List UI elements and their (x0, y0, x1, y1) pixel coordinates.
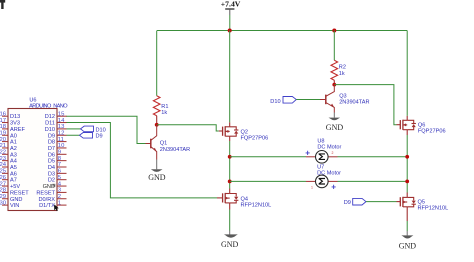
transistor Q4 RFP12N10L (217, 189, 238, 210)
svg-text:GND: GND (326, 123, 344, 132)
svg-text:A2: A2 (10, 146, 17, 152)
node left column / motor U8 (228, 155, 232, 159)
svg-text:25: 25 (0, 169, 7, 175)
svg-text:23: 23 (0, 156, 7, 162)
svg-text:D2: D2 (48, 178, 55, 184)
marker on GND pin (52, 184, 55, 187)
svg-text:D9: D9 (48, 133, 55, 139)
svg-text:D10: D10 (96, 127, 106, 133)
left pins of U6 (2, 116, 8, 205)
wire R2 junction to Q6 gate (334, 85, 396, 125)
resistor R1 (153, 96, 160, 125)
node right column / motor U7 (405, 180, 409, 184)
right pin numbers (58, 111, 65, 206)
svg-text:2: 2 (332, 151, 334, 155)
svg-text:RFP12N10L: RFP12N10L (241, 202, 272, 208)
svg-text:D9: D9 (96, 134, 103, 140)
svg-text:A6: A6 (10, 171, 17, 177)
component U6 ARDUINO_NANO (8, 98, 68, 211)
svg-text:16: 16 (0, 111, 7, 117)
svg-text:D11: D11 (45, 121, 55, 127)
svg-text:VIN: VIN (10, 203, 19, 209)
svg-text:D1/TX: D1/TX (39, 203, 55, 209)
svg-text:12: 12 (58, 130, 65, 136)
svg-text:FQP27P06: FQP27P06 (418, 129, 446, 135)
ground under Q1 (148, 160, 166, 183)
svg-text:DC Motor: DC Motor (317, 144, 341, 150)
node R1/Q1 collector junction (155, 123, 159, 127)
svg-text:RFP12N10L: RFP12N10L (418, 206, 449, 212)
svg-text:+7.4V: +7.4V (221, 0, 241, 8)
power +7.4V (221, 0, 241, 31)
svg-text:27: 27 (0, 181, 6, 187)
wire Q6 source down right column (406, 135, 408, 193)
svg-text:15: 15 (58, 111, 65, 117)
svg-text:AREF: AREF (10, 127, 26, 133)
svg-text:2: 2 (58, 194, 61, 200)
svg-text:A5: A5 (10, 165, 17, 171)
wire R1 junction to Q2 gate (157, 125, 219, 131)
svg-text:A4: A4 (10, 159, 17, 165)
svg-text:1k: 1k (339, 71, 345, 77)
transistor Q2 FQP27P06 (219, 122, 239, 141)
wire Q2 source down left column (229, 141, 231, 189)
svg-text:D3: D3 (48, 171, 55, 177)
svg-text:+: + (305, 149, 310, 158)
motor U7 DC Motor (230, 165, 408, 192)
svg-text:3V3: 3V3 (10, 121, 20, 127)
ground under Q3 (326, 113, 344, 133)
node rail/+7.4V junction (228, 29, 232, 33)
svg-text:Q1: Q1 (160, 141, 167, 147)
svg-text:+5V: +5V (10, 184, 20, 190)
svg-text:1: 1 (311, 186, 313, 190)
svg-text:D6: D6 (48, 152, 55, 158)
svg-text:18: 18 (0, 124, 7, 130)
right pin names (36, 114, 55, 209)
svg-text:9: 9 (58, 150, 61, 156)
node R2/Q3 collector junction (332, 83, 336, 87)
ground under Q5 (399, 221, 417, 250)
node right column / motor U8 (405, 155, 409, 159)
svg-text:R2: R2 (339, 65, 346, 71)
svg-text:28: 28 (0, 188, 7, 194)
resistor R2 (333, 31, 335, 61)
svg-text:A7: A7 (10, 178, 17, 184)
svg-text:FQP27P06: FQP27P06 (241, 135, 269, 141)
svg-text:A0: A0 (10, 133, 17, 139)
svg-text:19: 19 (0, 130, 6, 136)
left pin numbers (0, 111, 7, 206)
net label D10 (at U6) (67, 128, 81, 130)
transistor Q6 FQP27P06 (397, 116, 416, 135)
svg-text:7: 7 (58, 162, 61, 168)
svg-text:R1: R1 (161, 104, 168, 110)
svg-text:22: 22 (0, 150, 6, 156)
ground under Q4 (221, 210, 239, 249)
svg-text:13: 13 (58, 124, 65, 130)
svg-text:2N3904TAR: 2N3904TAR (160, 147, 190, 153)
svg-text:A3: A3 (10, 152, 17, 158)
svg-text:D10: D10 (270, 99, 280, 105)
svg-text:GND: GND (221, 240, 239, 249)
svg-text:D8: D8 (48, 140, 55, 146)
node rail/R2 junction (332, 29, 336, 33)
svg-text:D7: D7 (48, 146, 55, 152)
transistor Q5 RFP12N10L (397, 193, 416, 222)
wire rail to R1 (156, 31, 158, 96)
stray text glyph top-left (0, 0, 5, 9)
svg-text:+: + (331, 183, 336, 192)
svg-text:D0/RX: D0/RX (39, 197, 56, 203)
svg-text:D10: D10 (45, 127, 55, 133)
svg-text:29: 29 (0, 194, 6, 200)
left pin names (10, 114, 29, 209)
wire D11 pin to Q4 gate (66, 123, 217, 198)
svg-text:30: 30 (0, 200, 7, 206)
svg-text:A1: A1 (10, 140, 17, 146)
svg-text:2N3904TAR: 2N3904TAR (339, 100, 369, 106)
svg-text:RESET: RESET (36, 190, 55, 196)
svg-text:1k: 1k (161, 110, 167, 116)
svg-text:24: 24 (0, 162, 7, 168)
svg-text:D4: D4 (48, 165, 55, 171)
svg-text:11: 11 (58, 137, 64, 143)
svg-text:26: 26 (0, 175, 7, 181)
wire +7.4V column to Q2 drain (229, 31, 231, 123)
svg-text:D12: D12 (45, 114, 55, 120)
svg-text:GND: GND (148, 173, 166, 182)
svg-text:14: 14 (58, 118, 65, 124)
svg-text:1: 1 (58, 200, 61, 206)
right pins of U6 (57, 116, 67, 205)
mouse cursor (54, 204, 59, 211)
wire rail to Q6 drain (406, 31, 408, 116)
svg-text:17: 17 (0, 118, 6, 124)
svg-text:RESET: RESET (10, 190, 29, 196)
svg-text:20: 20 (0, 137, 7, 143)
wire top rail (157, 30, 407, 32)
svg-text:10: 10 (58, 143, 65, 149)
svg-text:D13: D13 (10, 114, 20, 120)
transistor Q1 (146, 125, 157, 160)
motor U8 DC Motor (230, 138, 408, 163)
svg-text:D5: D5 (48, 159, 55, 165)
node left column / motor U7 (228, 180, 232, 184)
svg-text:D9: D9 (344, 200, 351, 206)
wire D12 pin to Q1 base (66, 116, 146, 143)
transistor Q3 (320, 85, 334, 113)
svg-text:21: 21 (0, 143, 6, 149)
net label D9 (at U6) (67, 134, 80, 136)
svg-text:GND: GND (399, 241, 417, 250)
svg-text:GND: GND (10, 197, 22, 203)
